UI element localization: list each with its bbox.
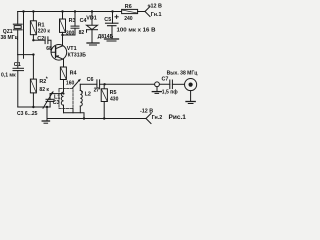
svg-text:Д814Б: Д814Б — [98, 34, 114, 40]
wire collector up — [62, 35, 64, 46]
svg-text:430: 430 — [110, 97, 119, 103]
svg-text:Вых. 38 МГц: Вых. 38 МГц — [167, 70, 199, 76]
svg-text:VD1: VD1 — [86, 16, 97, 22]
svg-text:R3: R3 — [69, 18, 76, 24]
ground chassis bottom-left — [42, 121, 49, 123]
svg-text:КТ313Б: КТ313Б — [68, 53, 87, 59]
node dot R1/C2 — [32, 39, 34, 41]
connector Gn.2 — [146, 114, 151, 124]
ground under C5 — [105, 39, 119, 41]
svg-text:240: 240 — [124, 16, 133, 22]
wire middle long — [80, 83, 97, 85]
capacitor C3 variable — [43, 91, 54, 108]
wire left ground rail — [18, 106, 50, 108]
capacitor C5 electrolytic — [106, 12, 119, 39]
node dot joiner/lower rail — [83, 117, 85, 119]
svg-text:R1: R1 — [38, 22, 45, 28]
node dot R5 — [103, 83, 105, 85]
svg-text:68: 68 — [46, 46, 52, 52]
transistor VT1 — [51, 45, 67, 61]
wire node A horizontal — [18, 54, 34, 56]
svg-text:VT1: VT1 — [67, 46, 77, 52]
wire top rail — [18, 11, 122, 13]
svg-text:100 мк х 16 В: 100 мк х 16 В — [117, 27, 156, 33]
capacitor C2 — [33, 37, 55, 53]
svg-text:C3 6...25: C3 6...25 — [17, 111, 38, 117]
ground test point circle — [152, 82, 161, 94]
wire crystal right line to node A — [23, 12, 25, 59]
coax output connector — [185, 79, 197, 104]
svg-text:27: 27 — [94, 88, 100, 94]
connector Gn.1 — [145, 7, 150, 17]
resistor R6 horizontal — [122, 9, 138, 13]
svg-text:38 МГц: 38 МГц — [1, 35, 19, 41]
node dot ground drop — [46, 106, 48, 108]
wire C3 top to L1 — [50, 93, 63, 95]
wire screen ground lead — [72, 109, 74, 113]
capacitor C7 — [170, 80, 184, 89]
resistor R4 — [60, 59, 66, 88]
svg-text:300: 300 — [66, 31, 75, 37]
arrow variable transformer — [73, 79, 81, 88]
resistor R2 — [30, 55, 36, 107]
node dot R5/lower rail — [103, 117, 105, 119]
resistor R5 — [101, 84, 107, 118]
resistor R3 — [60, 12, 66, 36]
svg-text:82: 82 — [79, 30, 85, 36]
node dot rail/VD1 — [91, 10, 93, 12]
svg-text:-12 В: -12 В — [140, 108, 153, 114]
wire crystal top lead — [17, 12, 19, 25]
node dot rail/C5 — [111, 10, 113, 12]
wire C6 to C7 — [100, 83, 170, 85]
svg-text:Гн.1: Гн.1 — [151, 12, 162, 18]
svg-text:1,5 пф: 1,5 пф — [162, 89, 178, 96]
crystal QZ1 — [13, 24, 22, 54]
inductor L1 winding — [61, 89, 63, 113]
svg-text:Рис.1: Рис.1 — [169, 114, 187, 121]
L2 polarity dot — [81, 91, 83, 93]
svg-text:C7: C7 — [162, 76, 169, 82]
svg-text:L2: L2 — [85, 91, 91, 97]
node dot R2/rail — [32, 106, 34, 108]
svg-text:C2: C2 — [37, 36, 44, 42]
svg-text:Гн.2: Гн.2 — [152, 115, 163, 121]
diode VD1 zener — [87, 12, 98, 43]
svg-text:82 к: 82 к — [39, 87, 49, 93]
capacitor C6 — [97, 80, 100, 89]
svg-text:C1: C1 — [14, 62, 21, 68]
svg-text:0,1 мк: 0,1 мк — [1, 73, 16, 79]
svg-text:C6: C6 — [87, 77, 94, 83]
svg-text:220 к: 220 к — [38, 29, 51, 35]
wire rail to Gn1 — [138, 11, 145, 13]
svg-text:R6: R6 — [125, 4, 132, 10]
wire lower rail — [47, 118, 146, 120]
wire ground drop — [46, 107, 48, 120]
capacitor C4 — [71, 12, 79, 36]
node dot L1 top — [63, 93, 65, 95]
resistor R1 — [30, 12, 36, 41]
svg-text:C3: C3 — [53, 100, 60, 106]
svg-text:*: * — [46, 77, 48, 83]
screen dashed box around L1 — [59, 89, 73, 109]
svg-text:160: 160 — [66, 80, 75, 86]
wire collector node to C4 — [63, 34, 76, 36]
capacitor C1 — [13, 55, 24, 107]
svg-text:+12 В: +12 В — [147, 3, 162, 9]
node dot collector — [61, 34, 63, 36]
node dot rail/R3 — [61, 10, 63, 12]
wire transformer bottom joiner — [64, 113, 85, 119]
node dot rail/crystal — [22, 10, 24, 12]
ground under VD1 — [87, 43, 99, 45]
node dot rail/C4 — [74, 10, 76, 12]
node dot rail/R1 — [32, 10, 34, 12]
svg-text:R5: R5 — [110, 90, 117, 96]
inductor L2 winding — [80, 84, 82, 112]
svg-text:R4: R4 — [70, 71, 77, 77]
svg-text:C5: C5 — [104, 17, 111, 23]
node dot A — [32, 53, 34, 55]
